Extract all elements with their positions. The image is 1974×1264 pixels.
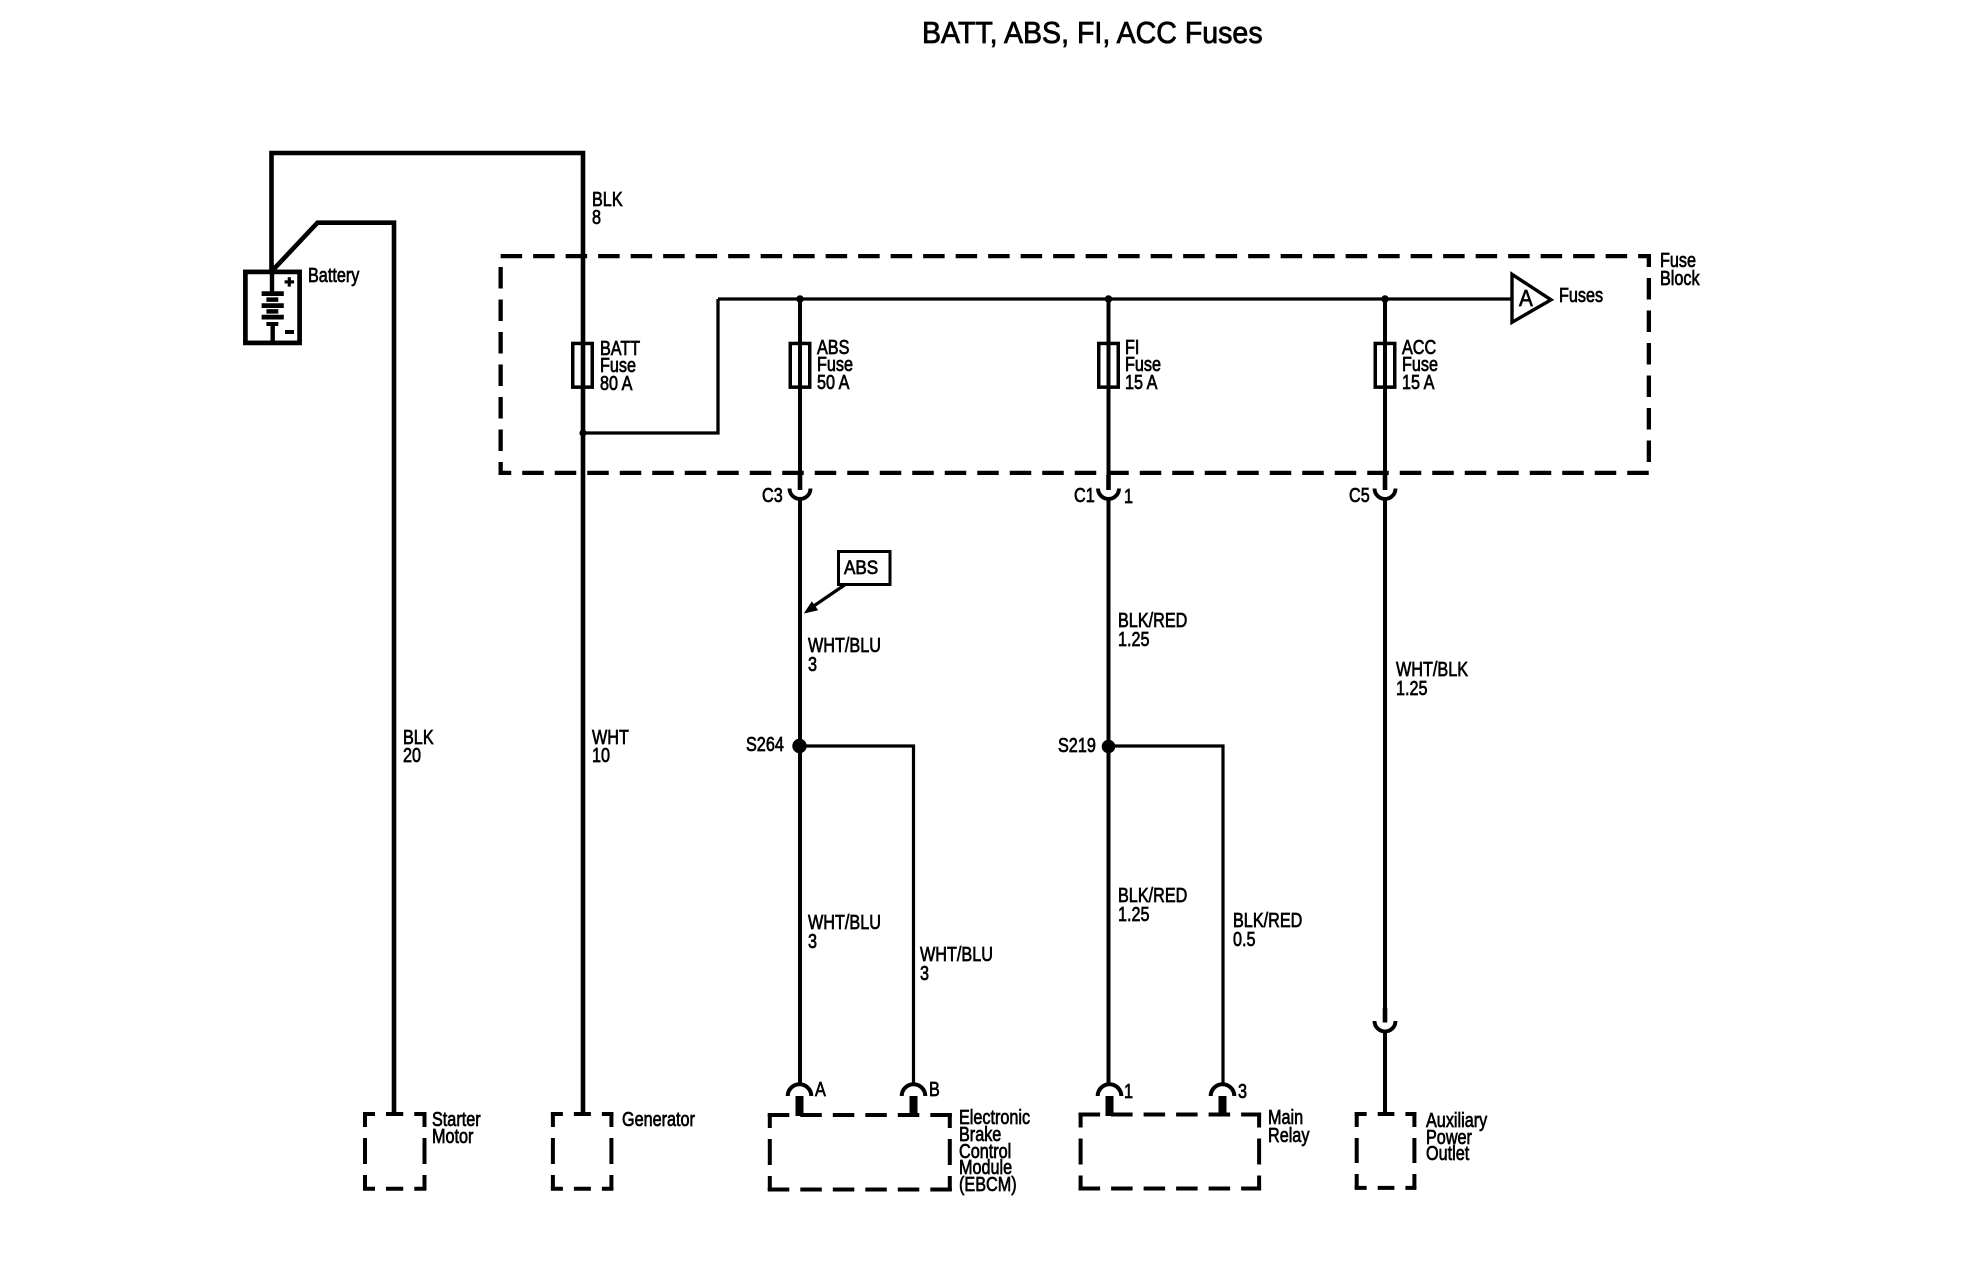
connector EBCM pin B stub	[910, 1096, 918, 1116]
label pin 3	[1238, 1084, 1247, 1102]
ABS callout arrow shaft	[813, 584, 846, 607]
label Fuses (off-page arrow)	[1559, 288, 1603, 306]
fuse ACC 15A	[1375, 343, 1395, 387]
label wire BLK/RED 1.25 upper	[1118, 612, 1187, 650]
title	[922, 17, 1263, 48]
label wire WHT/BLU 3 lower right	[920, 946, 993, 984]
connector C5 cup	[1375, 489, 1396, 500]
label wire BLK 20	[403, 730, 434, 766]
wire junction BATT fuse output to bus riser	[583, 299, 718, 433]
generator box	[551, 1112, 614, 1191]
wire S264 branch to EBCM pin B	[800, 746, 914, 1083]
connector Main Relay pin 3 cup	[1211, 1084, 1235, 1096]
ABS callout arrowhead	[806, 603, 817, 612]
label splice S219	[1058, 738, 1096, 756]
label wire WHT/BLU 3 lower left	[808, 914, 881, 952]
label wire WHT/BLK 1.25	[1396, 661, 1468, 699]
connector EBCM pin A cup	[788, 1084, 812, 1096]
label Starter Motor	[432, 1112, 481, 1145]
label wire WHT 10	[592, 730, 629, 766]
label fuse ABS 50 A	[817, 340, 853, 392]
battery	[245, 272, 299, 343]
label Battery	[308, 268, 359, 286]
label fuse FI 15 A	[1125, 340, 1161, 392]
fuse BATT 80A	[573, 343, 593, 387]
auxiliary power outlet box	[1355, 1112, 1417, 1190]
fuse block dashed border	[501, 256, 1649, 473]
label wire BLK 8	[592, 192, 623, 228]
fuse FI 15A	[1099, 343, 1119, 387]
node bus junction dot ACC	[1381, 295, 1389, 303]
wire S219 branch BLK/RED 0.5 to Main Relay pin 3	[1109, 746, 1224, 1083]
node splice S264	[792, 739, 806, 753]
wire ACC fuse vertical	[1383, 299, 1387, 475]
label pin 1	[1124, 1084, 1133, 1102]
label Fuse Block	[1660, 252, 1700, 288]
label fuse BATT 80 A	[600, 341, 640, 393]
wire ABS branch WHT/BLU down to S264 and EBCM pin A	[798, 501, 802, 1085]
label Electronic Brake Control Module (EBCM)	[959, 1110, 1030, 1194]
EBCM box	[768, 1113, 952, 1192]
connector EBCM pin B cup	[902, 1084, 926, 1096]
label pin A	[815, 1082, 826, 1100]
label ABS callout	[844, 559, 878, 578]
label wire BLK/RED 0.5	[1233, 912, 1302, 951]
connector C3 stub	[798, 475, 803, 490]
wire ABS fuse vertical	[798, 299, 802, 475]
wire battery positive feed (BLK 8) from battery top to fuse block / generator	[272, 153, 584, 1113]
label Auxiliary Power Outlet	[1426, 1113, 1487, 1163]
label pin B	[929, 1082, 940, 1100]
connector inline ACC stub	[1383, 1008, 1388, 1023]
connector inline ACC cup	[1375, 1021, 1396, 1032]
connector Main Relay pin 1 cup	[1098, 1084, 1122, 1096]
fuse ABS 50A	[790, 343, 810, 387]
label Main Relay	[1268, 1110, 1309, 1146]
off-page arrow A to Fuses	[1512, 274, 1551, 322]
label Generator	[622, 1112, 695, 1130]
connector C3 cup	[790, 489, 811, 500]
label A in off-page arrow	[1519, 287, 1533, 310]
node bus junction dot FI	[1105, 295, 1113, 303]
starter motor box	[363, 1112, 427, 1191]
label connector C3	[762, 488, 783, 506]
node bus junction dot ABS	[796, 295, 804, 303]
wire ACC branch WHT/BLK down to inline connector	[1383, 501, 1387, 1009]
wire fuse bus	[718, 297, 1512, 300]
wire FI fuse vertical	[1107, 299, 1111, 475]
connector C1 cup	[1098, 489, 1119, 500]
main relay box	[1079, 1113, 1262, 1191]
label wire WHT/BLU 3 upper	[808, 637, 881, 675]
label connector C5	[1349, 488, 1370, 506]
wire FI branch BLK/RED down to S219 and Main Relay pin 1	[1107, 501, 1111, 1085]
label wire BLK/RED 1.25 lower	[1118, 887, 1187, 925]
label pin 1 at C1	[1124, 489, 1133, 507]
label splice S264	[746, 737, 784, 755]
connector Main Relay pin 3 stub	[1219, 1096, 1227, 1116]
label connector C1	[1074, 488, 1095, 506]
connector EBCM pin A stub	[796, 1096, 804, 1116]
wire inline connector to Auxiliary Power Outlet	[1383, 1033, 1387, 1113]
connector C5 stub	[1383, 475, 1388, 490]
connector Main Relay pin 1 stub	[1106, 1096, 1114, 1116]
node splice S219	[1102, 740, 1116, 754]
wire battery to starter motor (BLK 20)	[272, 223, 395, 1113]
connector C1 stub	[1106, 475, 1111, 490]
ABS callout box	[839, 552, 891, 585]
label fuse ACC 15 A	[1402, 340, 1438, 392]
node junction dot at BATT fuse output	[579, 429, 586, 436]
